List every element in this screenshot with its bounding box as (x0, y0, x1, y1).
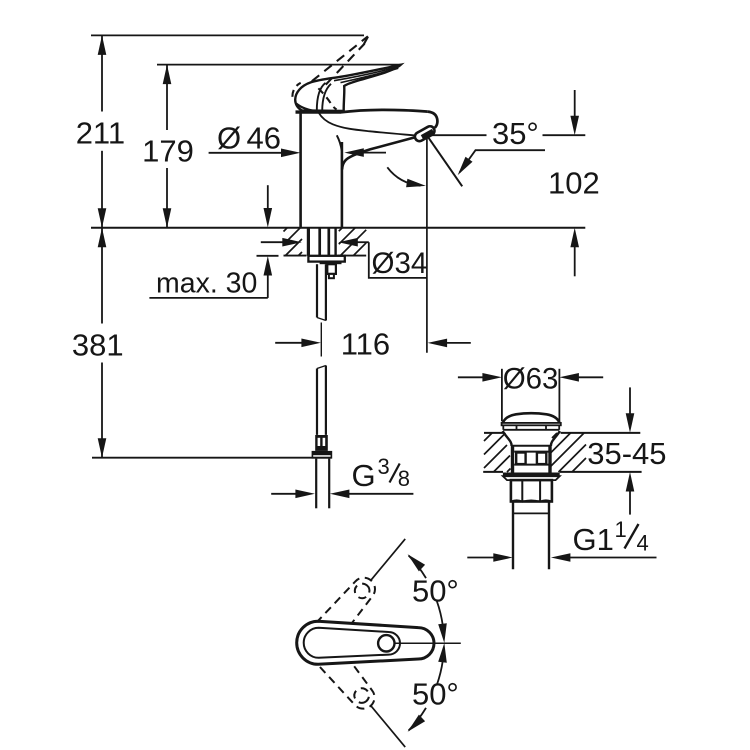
dimension 179 (163, 65, 172, 228)
deck underside lines (284, 255, 307, 257)
pipe end fitting (315, 435, 328, 451)
label D34 with leaders and box (261, 238, 427, 278)
label G 3/8 (390, 464, 400, 483)
label G1 1/4 (625, 524, 639, 549)
handle blade inner lines (334, 67, 399, 81)
svg-text:G1: G1 (573, 522, 614, 557)
spout-body junction curve (337, 135, 342, 150)
dimension G 3/8 (271, 490, 413, 499)
drain cap brim (502, 423, 561, 425)
drain deck underside line (483, 471, 503, 473)
label 35 deg with leader (428, 135, 586, 175)
drain body inner lines (512, 445, 551, 447)
top view: upper 50 arc (408, 554, 447, 643)
pipe end collar (312, 451, 333, 459)
mounting nut dark band (320, 262, 342, 265)
svg-text:Ø34: Ø34 (372, 247, 428, 280)
supply pipe lower segment (317, 366, 326, 435)
svg-text:35°: 35° (492, 116, 539, 151)
drain hex nut (511, 480, 552, 501)
drain cap dome (503, 413, 560, 423)
drain overflow holes (516, 453, 525, 465)
mounting flange under deck (308, 256, 344, 262)
dimension 35-45 (626, 387, 635, 514)
aerator (413, 125, 436, 143)
top reference line (faucet overall height) (91, 34, 364, 36)
svg-text:4: 4 (637, 530, 649, 555)
svg-text:211: 211 (76, 115, 125, 150)
svg-text:35-45: 35-45 (587, 436, 666, 471)
svg-text:8: 8 (398, 466, 410, 491)
spout nose (428, 112, 438, 128)
svg-text:46: 46 (247, 120, 281, 155)
svg-text:max. 30: max. 30 (156, 268, 257, 300)
dimension max. 30 (149, 185, 278, 298)
svg-text:102: 102 (548, 165, 600, 200)
svg-text:50°: 50° (412, 573, 459, 608)
dimension 381 (98, 228, 107, 458)
top view: dashed handle rotated down 50 (297, 622, 382, 715)
svg-text:381: 381 (72, 328, 124, 363)
drain body walls (511, 446, 514, 473)
drain seal washer (503, 473, 560, 477)
handle dome contour lines (317, 83, 326, 111)
spout underside (342, 137, 416, 169)
top view: handle button (378, 635, 394, 651)
dimension 211 (98, 35, 107, 227)
deck reference line (91, 227, 585, 229)
svg-text:179: 179 (142, 133, 194, 168)
outlet extension line (426, 137, 428, 353)
handle skirt line (296, 104, 319, 112)
handle reference line (179 level) (157, 64, 401, 66)
drain threaded pipe (513, 502, 549, 570)
top view: dashed handle rotated up 50 (297, 570, 382, 663)
dimension 116 (275, 339, 471, 348)
top view: angle rays (370, 539, 405, 581)
svg-text:Ø: Ø (217, 120, 241, 155)
pipe below collar (316, 459, 329, 509)
bottom reference line (381 level) (92, 457, 332, 459)
deck hatching right of faucet shank (339, 228, 366, 256)
drain deck line (484, 432, 503, 434)
top view: solid handle (297, 621, 434, 664)
svg-text:1: 1 (615, 517, 627, 542)
drain cap skirt (503, 425, 559, 430)
top view: centre line (395, 642, 461, 644)
drain neck (503, 431, 512, 446)
svg-text:116: 116 (341, 327, 390, 362)
svg-text:Ø63: Ø63 (503, 363, 559, 396)
svg-text:G: G (352, 458, 376, 493)
faucet handle (solid, side view) (295, 65, 401, 111)
connection stub (327, 264, 336, 274)
supply pipe upper segment (317, 264, 326, 320)
deck hatching left of faucet shank (284, 228, 303, 256)
svg-text:50°: 50° (412, 677, 459, 712)
dimension G1 1/4 (467, 553, 656, 562)
top view: lower 50 arc (408, 643, 447, 732)
svg-text:3: 3 (378, 454, 390, 479)
swivel arc with arrow (387, 167, 420, 185)
dimension 102 (570, 90, 579, 276)
faucet body (299, 113, 302, 227)
drain deck hatching left (484, 433, 511, 472)
spout top edge (340, 110, 428, 113)
pipe centre line at break (320, 323, 322, 357)
label D46 with leaders (209, 148, 386, 157)
spout inner contour (319, 113, 424, 137)
water stream line (428, 137, 463, 187)
drain deck hatching right (551, 433, 586, 472)
top view: handle inner contour (304, 628, 400, 658)
drain: dimension D63 (458, 369, 603, 422)
faucet shank through deck (308, 228, 335, 256)
raised handle (dashed) (312, 36, 368, 84)
